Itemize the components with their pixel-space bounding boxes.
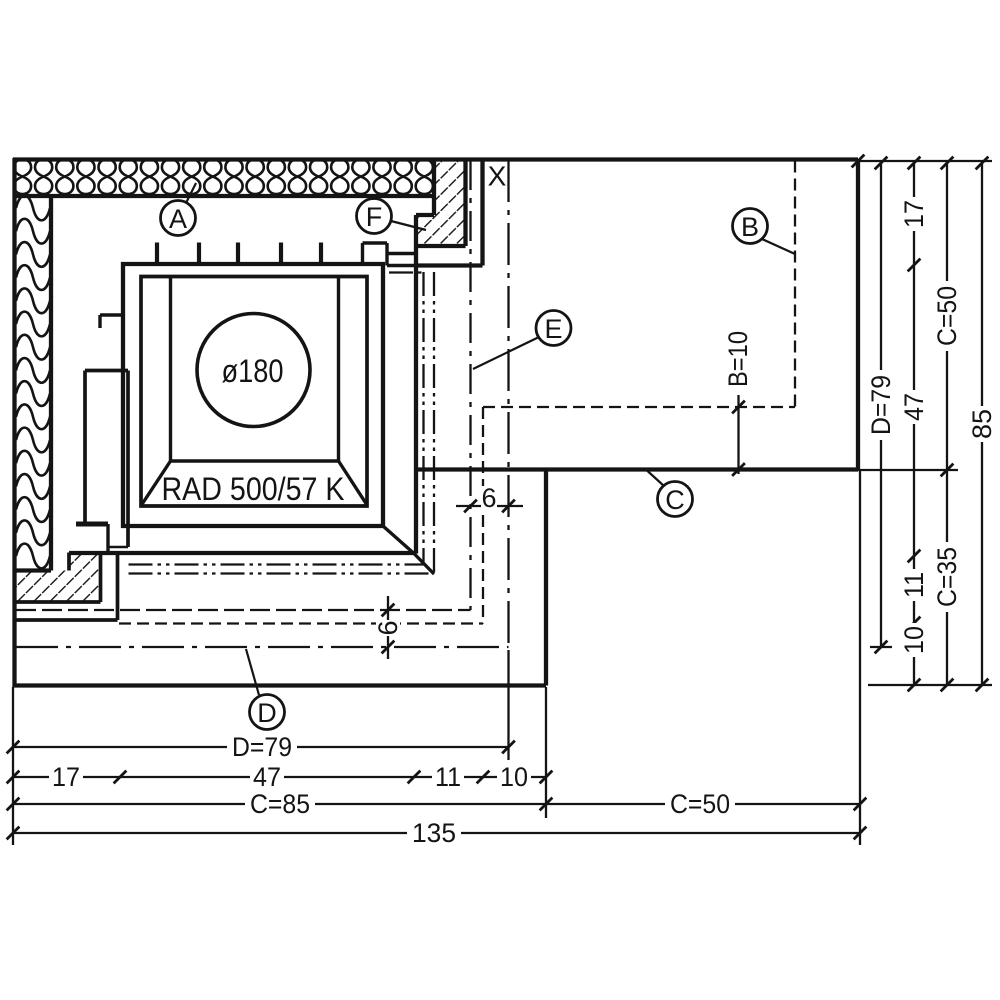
svg-text:ø180: ø180 [222,353,284,389]
svg-text:135: 135 [412,818,456,848]
svg-text:17: 17 [52,762,80,792]
svg-text:47: 47 [253,762,281,792]
svg-text:RAD 500/57 K: RAD 500/57 K [162,471,345,507]
svg-text:10: 10 [899,626,929,654]
svg-text:10: 10 [500,762,528,792]
svg-text:B=10: B=10 [723,331,753,387]
svg-text:A: A [169,204,187,234]
svg-text:11: 11 [899,572,929,598]
svg-text:C=85: C=85 [250,789,310,819]
svg-text:E: E [544,314,562,344]
svg-text:D=79: D=79 [232,732,292,762]
svg-text:C=50: C=50 [670,789,730,819]
svg-text:17: 17 [899,200,929,228]
svg-text:6: 6 [373,620,403,635]
svg-text:F: F [366,202,383,232]
svg-text:C: C [665,485,685,515]
svg-text:6: 6 [481,483,496,513]
svg-text:47: 47 [899,393,929,421]
svg-text:85: 85 [967,409,997,439]
svg-text:X: X [488,161,507,192]
svg-text:C=50: C=50 [932,286,962,346]
svg-text:D=79: D=79 [866,375,896,435]
svg-text:11: 11 [435,762,461,792]
svg-text:D: D [257,698,277,728]
svg-text:C=35: C=35 [932,547,962,607]
svg-text:B: B [741,212,759,242]
